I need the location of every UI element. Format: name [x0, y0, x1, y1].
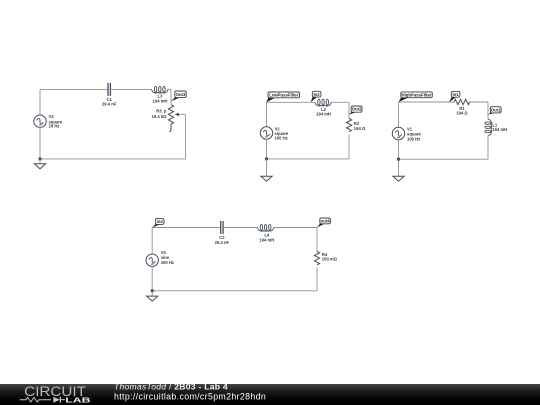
voltage source V4 — [146, 254, 158, 266]
junction circuit 3 — [397, 158, 400, 161]
svg-text:LowPassFilter: LowPassFilter — [269, 92, 298, 97]
wire bottom (circuit 1) — [40, 158, 186, 160]
wire bottom (circuit 3) — [399, 158, 489, 160]
node flag out4 — [317, 218, 330, 228]
node flag In1 — [449, 91, 460, 102]
wire L1 to bottom — [487, 136, 489, 160]
wire right vertical (circuit 1) — [185, 114, 187, 158]
wire top left (circuit 4) — [152, 227, 221, 229]
CircuitLab logo diode symbol — [53, 397, 60, 403]
wire C1 left (circuit 1 top) — [40, 88, 108, 90]
node flag In2 — [311, 91, 321, 102]
wire ground stem (circuit 2) — [266, 159, 268, 176]
label R3_p value — [152, 109, 168, 119]
wire left bottom (circuit 3) — [398, 140, 400, 160]
node flag Out1 — [488, 107, 501, 115]
ground circuit 3 — [393, 176, 404, 181]
voltage source V3 — [34, 115, 46, 127]
wire down to R4 — [316, 228, 318, 252]
junction circuit 4 — [151, 289, 154, 292]
inductor L3 — [152, 86, 169, 93]
label R2 value — [354, 121, 366, 131]
capacitor C1 — [108, 83, 110, 96]
wire left top (circuit 4) — [151, 228, 153, 255]
wire bottom (circuit 4) — [152, 290, 317, 292]
svg-text:100 Hz: 100 Hz — [275, 136, 288, 141]
wire left bottom (circuit 4) — [151, 266, 153, 290]
label V4 value — [161, 250, 174, 265]
net flag HighPassFilter — [399, 92, 433, 102]
voltage source V1 — [392, 127, 404, 139]
label V2 value — [275, 126, 289, 140]
label R1 value — [456, 106, 468, 116]
svg-text:Out3: Out3 — [176, 92, 186, 97]
svg-text:http://circuitlab.com/cr5pm2hr: http://circuitlab.com/cr5pm2hr28hdn — [114, 392, 266, 402]
wire down to R3_p — [170, 89, 172, 104]
wire R1 to corner — [470, 101, 488, 103]
net flag LowPassFilter — [267, 92, 300, 102]
wire L3 to corner — [168, 88, 171, 90]
svg-text:In2: In2 — [313, 92, 320, 97]
svg-text:194 mH: 194 mH — [316, 112, 331, 117]
label C1 value — [102, 97, 117, 107]
resistor R1 — [454, 99, 470, 104]
ground circuit 1 — [34, 164, 45, 169]
svg-text:HighPassFilter: HighPassFilter — [402, 92, 432, 97]
wire bottom (circuit 2) — [267, 158, 350, 160]
svg-text:In1: In1 — [452, 92, 459, 97]
svg-text:Out2: Out2 — [352, 107, 362, 112]
svg-text:100 Hz: 100 Hz — [161, 260, 174, 265]
wire left top (circuit 1) — [39, 89, 41, 115]
svg-text:194 Ω: 194 Ω — [354, 126, 366, 131]
svg-text:194 mH: 194 mH — [259, 237, 274, 242]
wire L2 to corner — [331, 101, 349, 103]
svg-text:19.4 kΩ: 19.4 kΩ — [152, 114, 168, 119]
svg-text:29.4 nF: 29.4 nF — [215, 240, 230, 245]
label V3 value — [49, 114, 63, 128]
svg-text:194 Ω: 194 Ω — [456, 111, 468, 116]
wire left top (circuit 3) — [398, 102, 400, 127]
wire down to L1 — [487, 102, 489, 119]
wire left top (circuit 2) — [266, 102, 268, 127]
svg-text:100 Hz: 100 Hz — [407, 136, 420, 141]
label R4 value — [322, 252, 338, 262]
svg-text:out4: out4 — [321, 218, 331, 223]
wiper arrow R3_p — [175, 113, 186, 117]
svg-text:R3_p: R3_p — [156, 109, 167, 114]
label L1 value — [492, 123, 507, 133]
potentiometer R3_p — [168, 105, 173, 132]
svg-text:100 mΩ: 100 mΩ — [322, 257, 338, 262]
wire ground stem (circuit 4) — [151, 291, 153, 296]
svg-text:ThomasTodd / 2B03 - Lab 4: ThomasTodd / 2B03 - Lab 4 — [114, 382, 228, 392]
ground circuit 2 — [261, 176, 272, 181]
wire top left (circuit 3) — [399, 101, 455, 103]
svg-text:20 Hz: 20 Hz — [49, 124, 60, 129]
svg-text:194 mH: 194 mH — [153, 98, 168, 103]
label L2 value — [316, 107, 331, 117]
junction circuit 1 — [39, 158, 42, 161]
wire ground stem (circuit 1) — [39, 159, 41, 164]
label V1 value — [407, 127, 421, 142]
resistor R4 — [314, 252, 319, 265]
node flag Out2 — [349, 106, 362, 115]
wire C2 to L4 — [223, 227, 257, 229]
node flag in4 — [152, 219, 164, 228]
label L3 value — [153, 93, 168, 103]
svg-text:29.4 nF: 29.4 nF — [102, 102, 117, 107]
wire ground stem (circuit 3) — [398, 159, 400, 176]
wire R4 to bottom — [316, 268, 318, 291]
wire top left (circuit 2) — [267, 101, 315, 103]
wire down to R2 — [348, 102, 350, 118]
wire C1 to L3 — [111, 88, 152, 90]
svg-text:LAB: LAB — [65, 395, 91, 404]
wire R2 to bottom — [348, 135, 350, 159]
node flag Out3 — [171, 91, 186, 101]
svg-text:in4: in4 — [157, 219, 164, 224]
wire left bottom (circuit 1) — [39, 127, 41, 158]
junction circuit 2 — [265, 158, 268, 161]
CircuitLab logo resistor squiggle — [20, 397, 51, 402]
inductor L2 — [315, 99, 332, 106]
voltage source V2 — [260, 127, 272, 139]
inductor L4 — [257, 224, 274, 231]
ground circuit 4 — [147, 296, 158, 301]
wire L4 to corner — [274, 227, 317, 229]
resistor R2 — [346, 119, 351, 132]
svg-text:194 mH: 194 mH — [492, 127, 507, 132]
capacitor C2 — [221, 221, 223, 234]
wire left bottom (circuit 2) — [266, 139, 268, 159]
inductor L1 — [485, 119, 492, 136]
svg-text:Out1: Out1 — [491, 107, 501, 112]
label L4 value — [259, 233, 274, 243]
label C2 value — [215, 235, 230, 245]
